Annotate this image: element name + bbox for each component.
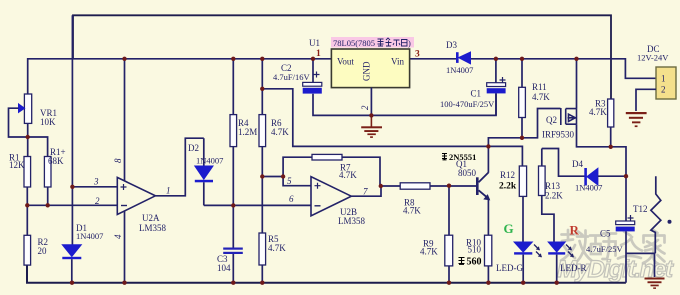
resistor R13 xyxy=(539,149,564,243)
svg-text:1N4007: 1N4007 xyxy=(196,156,223,166)
svg-text:104: 104 xyxy=(217,263,231,273)
svg-text:D4: D4 xyxy=(572,159,583,169)
potentiometer VR1 xyxy=(19,94,58,127)
connector DC 12V-24V xyxy=(637,44,676,99)
svg-text:G: G xyxy=(504,221,514,236)
svg-text:2.2K: 2.2K xyxy=(545,191,563,201)
wire: DC pin2 to ground xyxy=(636,89,656,111)
junction dot on pin6 net xyxy=(231,203,235,207)
voltage regulator U1 78L05 xyxy=(309,38,420,88)
svg-text:LM358: LM358 xyxy=(338,216,366,226)
wire: gate rail to Q2 xyxy=(488,109,560,147)
svg-text:C1: C1 xyxy=(471,89,482,99)
svg-text:7: 7 xyxy=(363,187,368,197)
wire: Q2 source to raw bus xyxy=(576,59,578,109)
junction dot Q1 collector on gate line xyxy=(486,144,490,148)
svg-text:4.7K: 4.7K xyxy=(403,206,421,216)
svg-text:100-470uF/25V: 100-470uF/25V xyxy=(440,99,495,109)
ground symbol under 78L05 pin2 xyxy=(361,115,382,138)
wire: VR1 bottom to R1 xyxy=(27,123,29,156)
svg-text:1N4007: 1N4007 xyxy=(446,65,473,75)
resistor R4 xyxy=(230,59,257,206)
wire: R7 feedback loop xyxy=(283,157,380,186)
svg-text:4: 4 xyxy=(113,234,123,239)
resistor R1+ xyxy=(44,147,65,205)
svg-text:Vin: Vin xyxy=(391,57,404,67)
wire: raw V+ bus (right of regulator) xyxy=(410,59,656,79)
svg-text:2: 2 xyxy=(360,105,370,110)
svg-text:20: 20 xyxy=(38,246,48,256)
svg-text:8050: 8050 xyxy=(458,168,477,178)
svg-text:GND: GND xyxy=(362,61,372,81)
wire: sense column x72 xyxy=(71,15,73,244)
svg-text:5: 5 xyxy=(287,176,292,186)
capacitor C3 xyxy=(217,205,243,282)
op-amp U2B xyxy=(287,176,368,226)
wire: U2A pin4 to ground rail xyxy=(124,211,126,283)
wire: U2A pin3 input from sense column xyxy=(72,186,117,188)
svg-text:6: 6 xyxy=(289,194,294,204)
wire: U2B pin5 stub xyxy=(262,177,311,186)
resistor R8 xyxy=(400,183,430,216)
junction dots on pin5 node xyxy=(260,174,285,178)
svg-text:1N4007: 1N4007 xyxy=(575,183,602,193)
svg-text:4.7uF/25V: 4.7uF/25V xyxy=(586,244,623,254)
resistor R10 xyxy=(459,235,492,283)
svg-text:1.2M: 1.2M xyxy=(238,127,257,137)
wire: C5 to output ground branch xyxy=(626,253,655,277)
transistor Q2 IRF9530 (P-MOSFET) xyxy=(561,108,577,125)
wire: Q1 emitter to R10 xyxy=(487,199,489,235)
junction dot D4 cathode node xyxy=(624,174,628,178)
diode D1 xyxy=(62,223,103,283)
junction dot sense column to pin3 xyxy=(70,185,74,189)
svg-text:78L05(7805: 78L05(7805 xyxy=(333,38,375,48)
wire: 78L05 pin2 to mid ground rail xyxy=(370,88,372,116)
ground symbol bottom right xyxy=(645,278,665,289)
svg-text:): ) xyxy=(408,38,411,48)
svg-text:1: 1 xyxy=(166,186,171,196)
svg-text:C5: C5 xyxy=(600,229,611,239)
svg-text:4.7K: 4.7K xyxy=(532,92,550,102)
svg-text:R: R xyxy=(570,223,580,238)
junction dots on bottom ground rail xyxy=(70,281,559,285)
thermistor / probe T12 xyxy=(651,176,672,253)
junction dot R3 on fan rail xyxy=(609,145,613,149)
svg-text:1: 1 xyxy=(661,74,666,84)
wire: mid ground rail xyxy=(313,93,496,115)
junction dots on raw V+ bus xyxy=(494,57,579,61)
svg-text:4.7K: 4.7K xyxy=(268,243,286,253)
wire: U2A output pin1 loop up to D2 xyxy=(155,138,203,196)
LED red LED-R xyxy=(548,223,586,283)
svg-text:12K: 12K xyxy=(9,160,25,170)
wire: top sense rail xyxy=(73,15,611,99)
wire: U2A pin2 inverting input xyxy=(27,204,117,206)
svg-text:8: 8 xyxy=(113,158,123,163)
78L05 pink note label xyxy=(331,37,414,48)
wire: VR1 wiper loop xyxy=(9,108,48,156)
junction dots on pin2 net xyxy=(25,203,50,207)
LED green LED-G xyxy=(496,221,542,283)
ground symbol at DC connector xyxy=(626,112,647,127)
diode D4 xyxy=(572,159,626,193)
svg-text:D3: D3 xyxy=(446,40,457,50)
svg-text:D2: D2 xyxy=(188,143,199,153)
resistor R9 xyxy=(420,186,453,283)
svg-text:Vout: Vout xyxy=(337,57,354,67)
junction dot at VR1 wiper tie xyxy=(26,135,30,139)
transistor Q1 8050 (NPN) xyxy=(442,152,490,200)
svg-text:3: 3 xyxy=(93,177,99,187)
watermark shuma zhijia xyxy=(561,230,665,265)
svg-text:R11: R11 xyxy=(532,82,547,92)
svg-text:R13: R13 xyxy=(545,181,561,191)
svg-text:IRF9530: IRF9530 xyxy=(542,130,575,140)
svg-text:LED-R: LED-R xyxy=(560,263,587,273)
wire: Q2 gate drive line (Q1 collector net) xyxy=(262,89,522,166)
svg-text:4.7K: 4.7K xyxy=(420,247,438,257)
resistor R3 xyxy=(589,99,614,147)
svg-text:2: 2 xyxy=(661,85,666,95)
diode D3 xyxy=(446,40,473,75)
wire: U2A pin8 to +5V bus xyxy=(124,59,126,181)
svg-text:Q2: Q2 xyxy=(546,115,557,125)
junction dots on U2B output net xyxy=(379,184,452,189)
svg-text:4.7K: 4.7K xyxy=(271,127,289,137)
svg-text:560: 560 xyxy=(467,257,482,268)
svg-text:2N5551: 2N5551 xyxy=(449,152,476,162)
svg-text:U1: U1 xyxy=(309,38,320,48)
resistor R2 xyxy=(24,205,48,265)
resistor R12 xyxy=(499,166,527,242)
wire: U2B pin6 net xyxy=(204,204,311,206)
capacitor C5 xyxy=(586,177,635,283)
svg-text:3: 3 xyxy=(415,50,420,60)
svg-text:4.7K: 4.7K xyxy=(589,107,607,117)
svg-text:T12: T12 xyxy=(633,204,648,214)
op-amp U2A xyxy=(93,177,171,234)
wire: U2B output pin7 xyxy=(351,186,476,196)
wire: Q2 drain to fan rail xyxy=(577,124,627,177)
resistor R7 xyxy=(312,154,357,180)
svg-text:2: 2 xyxy=(95,196,100,206)
svg-text:U2A: U2A xyxy=(142,213,160,223)
resistor R11 xyxy=(519,59,551,138)
junction dot mid ground rail xyxy=(369,113,373,117)
svg-text:68K: 68K xyxy=(48,156,64,166)
wire: R13 / D4 anode link xyxy=(542,149,585,177)
wire: +5V bus (left of regulator) xyxy=(28,59,332,94)
svg-text:4.7K: 4.7K xyxy=(339,170,357,180)
svg-text:R12: R12 xyxy=(500,170,515,180)
diode D2 xyxy=(188,138,223,205)
svg-text:1N4007: 1N4007 xyxy=(76,231,103,241)
wire: Q1 collector riser xyxy=(487,146,489,172)
svg-text:2.2k: 2.2k xyxy=(499,182,517,192)
svg-text:12V-24V: 12V-24V xyxy=(637,53,669,63)
svg-text:10K: 10K xyxy=(40,117,56,127)
capacitor C1 xyxy=(440,59,506,116)
svg-text:510: 510 xyxy=(468,245,482,255)
capacitor C2 xyxy=(273,59,322,94)
resistor R1 xyxy=(9,153,31,206)
resistor R6 xyxy=(259,59,289,177)
junction dots on +5V bus xyxy=(122,57,315,61)
junction dot R11 to gate rail xyxy=(520,136,524,140)
resistor R5 xyxy=(259,177,286,283)
svg-text:LM358: LM358 xyxy=(139,223,167,233)
svg-text:1: 1 xyxy=(316,49,321,59)
svg-text:4.7uF/16V: 4.7uF/16V xyxy=(273,72,310,82)
junction dot R6 gate branch xyxy=(260,87,264,91)
wire: bottom ground rail xyxy=(27,265,626,283)
svg-text:LED-G: LED-G xyxy=(496,263,523,273)
